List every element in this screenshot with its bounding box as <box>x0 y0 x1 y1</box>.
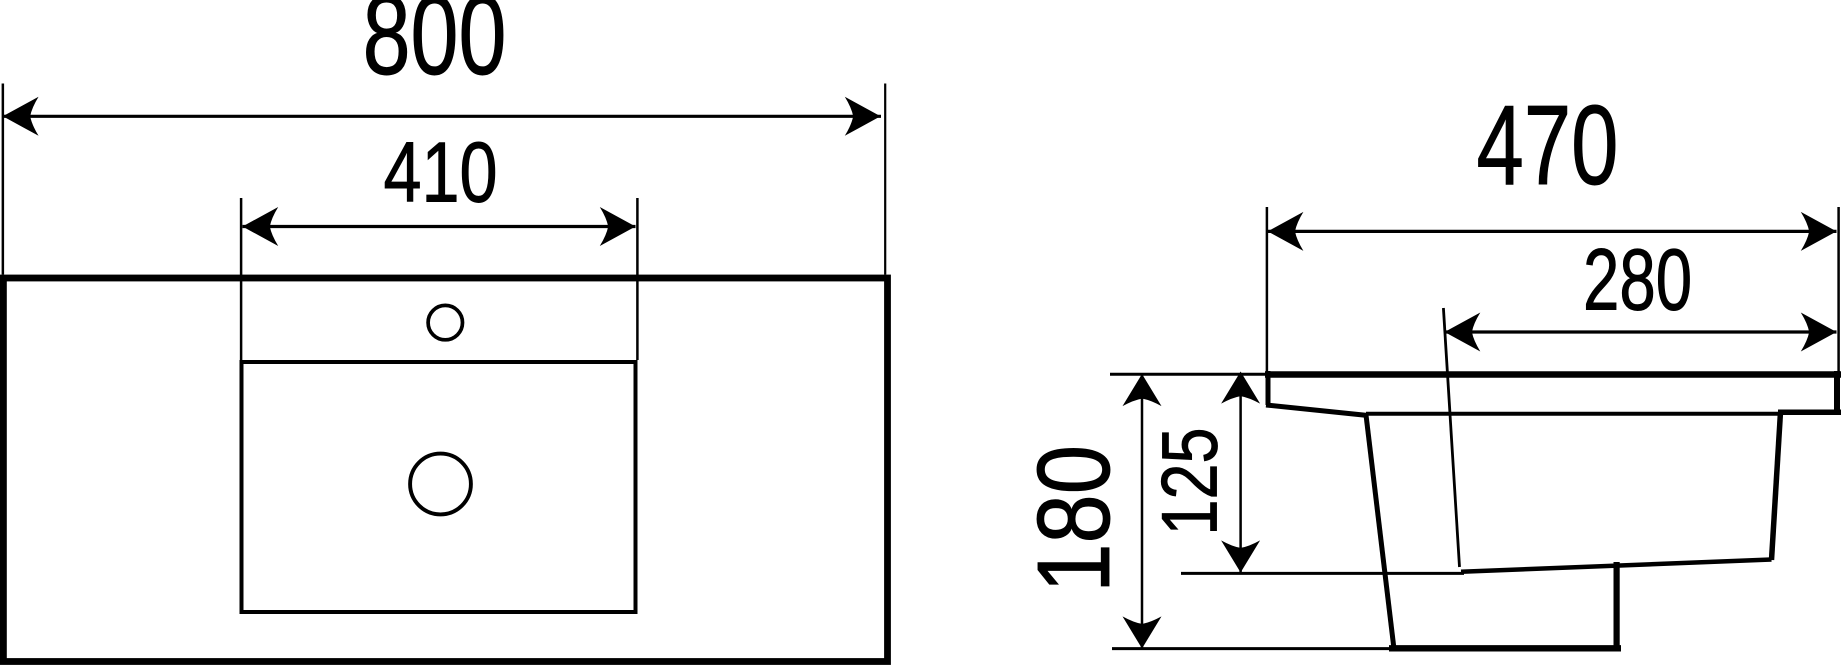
svg-text:470: 470 <box>1477 82 1619 209</box>
svg-text:410: 410 <box>383 125 497 220</box>
svg-text:125: 125 <box>1147 427 1234 535</box>
svg-text:280: 280 <box>1583 231 1692 328</box>
svg-text:180: 180 <box>1017 445 1132 593</box>
svg-text:800: 800 <box>363 0 507 99</box>
